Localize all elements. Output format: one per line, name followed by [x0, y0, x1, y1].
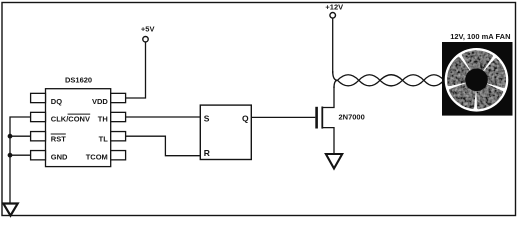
svg-text:TH: TH — [98, 114, 108, 123]
svg-text:+5V: +5V — [141, 25, 155, 34]
svg-text:2N7000: 2N7000 — [339, 113, 365, 122]
svg-text:CLK/CONV: CLK/CONV — [51, 114, 90, 123]
svg-text:DQ: DQ — [51, 97, 62, 106]
svg-text:S: S — [204, 114, 210, 124]
svg-text:VDD: VDD — [92, 97, 108, 106]
svg-text:Q: Q — [242, 114, 249, 124]
svg-text:RST: RST — [51, 134, 66, 143]
svg-text:DS1620: DS1620 — [65, 75, 92, 84]
svg-text:GND: GND — [51, 153, 68, 162]
svg-text:TL: TL — [99, 134, 109, 143]
svg-text:R: R — [204, 148, 210, 158]
svg-text:TCOM: TCOM — [86, 153, 108, 162]
svg-text:12V, 100 mA FAN: 12V, 100 mA FAN — [450, 32, 510, 41]
svg-text:+12V: +12V — [325, 2, 343, 11]
